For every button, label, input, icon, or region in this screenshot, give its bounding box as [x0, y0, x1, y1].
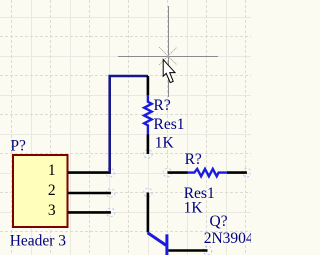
pin hot-end marker at horizontal resistor left — [163, 168, 172, 177]
connector P? body (Header 3) — [13, 155, 68, 227]
crosshair vertical line — [168, 6, 170, 97]
svg-text:Res1: Res1 — [154, 116, 185, 133]
designator label Q? — [210, 213, 228, 230]
designator label R? (horizontal resistor) — [185, 151, 202, 168]
wire from P? pin 1 up to resistor R? top — [110, 76, 148, 173]
crosshair horizontal line — [118, 56, 218, 58]
svg-text:R?: R? — [185, 151, 202, 168]
transistor Q? base pin — [168, 249, 207, 252]
pin hot-end marker at vertical resistor bottom — [144, 150, 153, 159]
pin hot-end marker at wire/pin1 junction — [106, 168, 115, 177]
svg-text:Header 3: Header 3 — [10, 232, 67, 249]
svg-text:1K: 1K — [184, 200, 204, 217]
vertical resistor R?: pin 2 (bottom) — [147, 135, 150, 155]
pin 3 of P? — [48, 202, 111, 219]
vertical resistor R?: pin 1 (top) — [147, 76, 150, 95]
comment label Res1 (horizontal resistor) — [184, 185, 215, 202]
pin hot-end marker at P? pin 3 — [106, 208, 115, 217]
transistor Q? collector pin — [147, 193, 150, 233]
svg-text:1: 1 — [48, 162, 56, 179]
comment label Res1 (vertical resistor) — [154, 116, 185, 133]
svg-text:Q?: Q? — [210, 213, 228, 230]
svg-text:1K: 1K — [155, 135, 175, 152]
designator label P? — [10, 137, 26, 154]
transistor Q? collector diagonal — [148, 233, 166, 246]
pin hot-end marker at P? pin 2 — [106, 189, 115, 198]
transistor Q? base bar — [165, 234, 168, 255]
comment label Header 3 — [10, 232, 67, 249]
pin hot-end marker at transistor base pin right — [203, 246, 212, 255]
horizontal resistor R?: body zigzag — [188, 169, 228, 176]
crosshair diagonal snap ticks — [159, 47, 177, 65]
grid (decorative) — [0, 0, 251, 255]
svg-text:P?: P? — [10, 137, 26, 154]
svg-text:2: 2 — [48, 182, 56, 199]
horizontal resistor R?: pin 2 (right) — [227, 171, 247, 174]
value label 1K (horizontal resistor) — [184, 200, 204, 217]
svg-text:3: 3 — [48, 202, 56, 219]
pin hot-end marker at horizontal resistor right — [243, 168, 252, 177]
vertical resistor R?: body zigzag — [144, 95, 152, 135]
mouse cursor arrow — [163, 60, 175, 83]
svg-text:R?: R? — [154, 97, 171, 114]
pin 1 of P? — [48, 162, 111, 179]
comment label 2N3904 — [204, 230, 254, 247]
horizontal resistor R?: pin 1 (left) — [168, 171, 188, 174]
pin 2 of P? — [48, 182, 111, 199]
designator label R? (vertical resistor) — [154, 97, 171, 114]
svg-text:2N3904: 2N3904 — [204, 230, 251, 247]
pin hot-end marker at transistor collector top — [144, 188, 153, 197]
value label 1K (vertical resistor) — [155, 135, 175, 152]
